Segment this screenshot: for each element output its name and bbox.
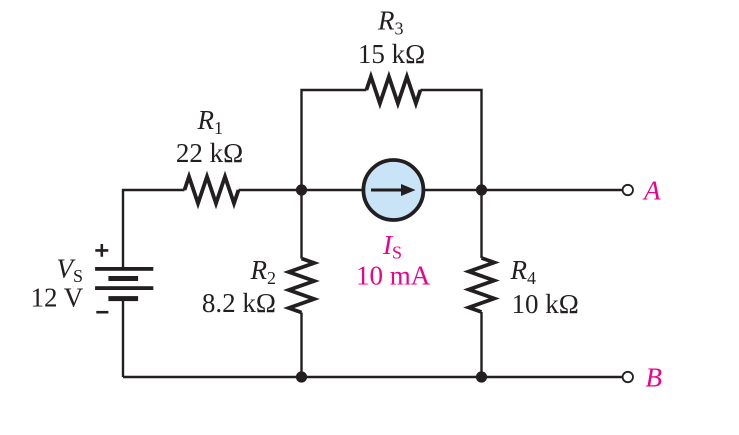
svg-text:IS: IS (382, 230, 402, 263)
resistor R1 (185, 177, 239, 204)
wire battery top lead to mid rail (123, 190, 185, 268)
svg-text:VS: VS (57, 254, 84, 287)
wire node 1 down to R2 (300, 190, 302, 259)
node 4 junction dot (476, 371, 487, 382)
bottom rail wire node 3 to node 4 (302, 376, 482, 378)
node 2 junction dot (476, 184, 487, 195)
svg-text:8.2 kΩ: 8.2 kΩ (202, 288, 276, 318)
wire R3 to right branch down to node 2 (420, 90, 481, 190)
terminal B (623, 372, 633, 382)
wire R2 to bottom rail (300, 313, 302, 378)
wire node 2 to terminal A (482, 189, 623, 191)
wire node 2 down to R4 (480, 190, 482, 258)
current source IS (363, 160, 423, 220)
resistor R2 (289, 259, 314, 313)
wire R4 to bottom rail (480, 312, 482, 377)
wire node 1 to current source (302, 189, 364, 191)
resistor R4 (469, 258, 494, 312)
svg-text:R3: R3 (377, 6, 404, 39)
battery VS plates (95, 267, 153, 301)
svg-text:22 kΩ: 22 kΩ (176, 138, 243, 168)
svg-text:10 kΩ: 10 kΩ (512, 289, 579, 319)
svg-text:A: A (642, 176, 661, 206)
node 3 junction dot (296, 371, 307, 382)
wire R1 to node 1 (239, 189, 302, 191)
wire node 1 up left branch to R3 (302, 90, 367, 190)
node 1 junction dot (296, 184, 307, 195)
terminal A (623, 185, 633, 195)
svg-text:10 mA: 10 mA (356, 261, 431, 291)
bottom rail wire battery to node 3 (123, 376, 302, 378)
svg-text:R2: R2 (250, 255, 277, 288)
bottom rail wire node 4 to terminal B (482, 376, 623, 378)
battery polarity plus sign (95, 244, 108, 257)
wire current source to node 2 (424, 189, 482, 191)
svg-text:R4: R4 (510, 255, 537, 288)
svg-text:12 V: 12 V (31, 283, 84, 313)
svg-text:15 kΩ: 15 kΩ (358, 39, 425, 69)
battery polarity minus sign (96, 311, 108, 314)
wire battery bottom lead (122, 301, 124, 377)
svg-text:B: B (646, 363, 663, 393)
svg-text:R1: R1 (197, 105, 224, 138)
resistor R3 (366, 77, 420, 104)
